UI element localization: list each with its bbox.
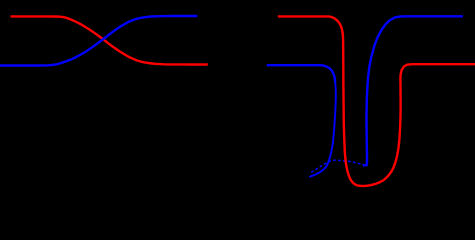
left panel red sigmoid (high to low) bbox=[11, 16, 208, 64]
left panel blue sigmoid (low to high) bbox=[0, 16, 197, 66]
right panel blue solid rise to top flat bbox=[363, 16, 463, 165]
right panel blue solid: flat + corner bbox=[267, 65, 336, 82]
right panel blue dashed branch bbox=[311, 160, 364, 172]
right panel blue solid: dive wall + back leg bbox=[309, 82, 336, 177]
right panel red: flat top, deep U, flat right bbox=[278, 16, 475, 186]
